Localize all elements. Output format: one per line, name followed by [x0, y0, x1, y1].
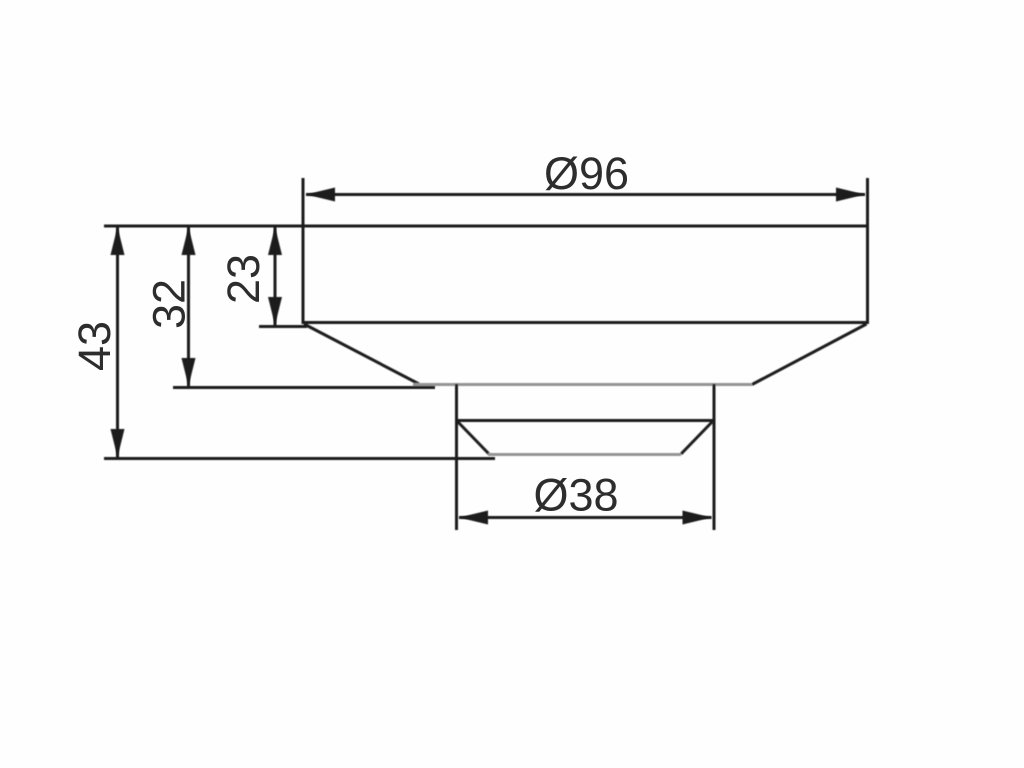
- Ø96 right arrowhead: [836, 188, 865, 202]
- Ø96 right extension line: [866, 178, 869, 226]
- Ø96 left extension line: [302, 178, 305, 226]
- 32 bottom arrowhead: [182, 358, 196, 386]
- 23 bottom arrowhead: [268, 297, 282, 325]
- lamp left slope: [458, 422, 489, 454]
- 32 top arrowhead: [182, 227, 196, 255]
- body bottom edge: [302, 321, 870, 324]
- 43 dimension line: [116, 227, 119, 458]
- cone bottom edge: [413, 383, 752, 386]
- svg-text:43: 43: [69, 321, 120, 371]
- cone right slope: [752, 324, 867, 385]
- lamp right slope: [681, 422, 712, 454]
- 23 dimension line: [274, 227, 277, 326]
- body left edge: [302, 226, 305, 324]
- 43 bottom arrowhead: [111, 429, 125, 457]
- 23 top arrowhead: [268, 227, 282, 255]
- Ø38 right extension line: [713, 384, 716, 530]
- svg-text:Ø38: Ø38: [533, 470, 618, 521]
- svg-text:23: 23: [218, 254, 269, 304]
- lamp top edge: [457, 419, 715, 422]
- Ø38 right arrowhead: [683, 511, 712, 525]
- body top edge: [303, 225, 868, 228]
- 23 bottom extension line: [259, 325, 307, 328]
- body right edge: [866, 226, 869, 324]
- Ø96 dimension line: [306, 193, 865, 196]
- svg-text:Ø96: Ø96: [544, 148, 629, 199]
- 43 top arrowhead: [111, 227, 125, 255]
- svg-text:32: 32: [144, 279, 195, 329]
- Ø38 left arrowhead: [459, 511, 488, 525]
- 32 dimension line: [187, 227, 190, 387]
- top extension line for vertical dimensions: [104, 225, 303, 228]
- cone left slope: [304, 324, 419, 384]
- Ø38 dimension line: [459, 516, 712, 519]
- lamp bottom edge: [488, 453, 681, 456]
- Ø38 left extension line: [455, 384, 458, 530]
- 43 bottom extension line: [104, 457, 495, 460]
- Ø96 left arrowhead: [306, 188, 335, 202]
- 32 bottom extension line: [173, 386, 435, 389]
